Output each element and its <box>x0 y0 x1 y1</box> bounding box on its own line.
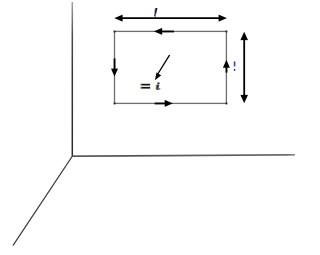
pointer arrow to i <box>155 55 170 80</box>
current arrow top edge (points left) <box>154 28 174 35</box>
dimension double arrow right (height b) <box>240 32 248 103</box>
rectangle corner dots <box>114 31 228 105</box>
wall vertical line <box>71 2 73 156</box>
current arrow bottom edge (points right) <box>155 100 173 107</box>
wall diagonal line <box>13 156 72 245</box>
rectangle loop <box>115 31 227 103</box>
label l (above top arrow) <box>154 8 157 17</box>
wall horizontal line <box>72 155 295 156</box>
label = i <box>141 82 161 90</box>
dimension double arrow top (width l) <box>114 15 227 22</box>
current arrow right edge (points up) <box>223 60 230 73</box>
current arrow left edge (points down) <box>111 59 118 77</box>
label b (right of rectangle) <box>234 62 236 71</box>
